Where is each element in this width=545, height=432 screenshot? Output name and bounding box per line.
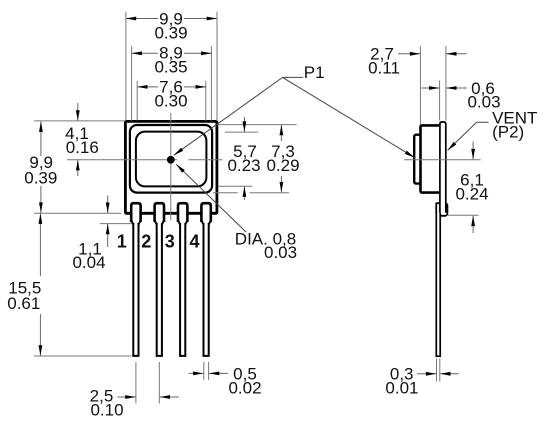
svg-text:0.11: 0.11 xyxy=(368,59,400,78)
front view: lead 3 (stub, taper, pin) xyxy=(178,203,187,356)
pin numbers xyxy=(117,231,200,251)
svg-text:0.04: 0.04 xyxy=(72,253,105,272)
svg-text:0.16: 0.16 xyxy=(66,138,99,157)
side view: lead xyxy=(436,203,440,356)
svg-text:0.24: 0.24 xyxy=(455,185,488,204)
front view: port outer ring xyxy=(130,125,212,193)
label VENT (P2) with leader xyxy=(448,109,538,151)
dimension 9,9 / 0.39 (top width) xyxy=(126,10,217,43)
svg-text:P1: P1 xyxy=(304,63,325,82)
front view: package body outline xyxy=(125,121,216,213)
svg-text:0.30: 0.30 xyxy=(154,92,187,111)
front view: lead 2 (stub, taper, pin) xyxy=(155,203,164,356)
front view: port inner ring xyxy=(136,132,207,187)
label DIA. 0,8 / 0.03 with leader xyxy=(176,164,297,262)
dimension 2,7 / 0.11 xyxy=(368,45,467,78)
dimension 5,7 / 0.23 xyxy=(227,117,260,200)
svg-text:(P2): (P2) xyxy=(492,123,524,142)
svg-text:0.61: 0.61 xyxy=(7,294,40,313)
svg-text:2: 2 xyxy=(141,231,151,251)
extension ticks right of front view (5,7 and 7,3) xyxy=(213,125,297,193)
dimension 2,5 / 0.10 (pin pitch) xyxy=(90,362,179,420)
dimension 0,5 / 0.02 (lead width) xyxy=(189,362,262,398)
dimension 6,1 / 0.24 xyxy=(455,142,488,234)
svg-text:0.35: 0.35 xyxy=(154,58,187,77)
centerline horizontal (side view) xyxy=(404,159,481,161)
dimension 1,1 / 0.04 xyxy=(72,196,107,273)
svg-text:3: 3 xyxy=(165,231,175,251)
svg-text:0.39: 0.39 xyxy=(154,24,187,43)
dimension 4,1 / 0.16 xyxy=(65,103,99,176)
port hole dot P1 xyxy=(167,156,175,164)
svg-text:1: 1 xyxy=(117,231,127,251)
side view: body xyxy=(421,125,443,192)
extension lines, left of front view xyxy=(34,121,132,356)
dimension 0,6 / 0.03 xyxy=(421,79,500,112)
side view extension lines (top) xyxy=(420,46,478,215)
svg-text:0.02: 0.02 xyxy=(228,379,261,398)
side view: vent strip xyxy=(440,122,446,213)
front view: lead 1 (stub, taper, pin) xyxy=(131,203,140,356)
side view: port cap xyxy=(414,135,423,184)
front view: lead 4 (stub, taper, pin) xyxy=(201,203,210,356)
dimension 7,3 / 0.29 xyxy=(266,125,299,192)
svg-text:0.10: 0.10 xyxy=(90,401,123,420)
svg-text:4: 4 xyxy=(189,231,199,251)
svg-text:0.03: 0.03 xyxy=(264,243,297,262)
dimension 8,9 / 0.35 xyxy=(132,44,212,77)
dimension 7,6 / 0.30 xyxy=(137,78,206,111)
svg-text:0.39: 0.39 xyxy=(24,168,57,187)
svg-text:0.01: 0.01 xyxy=(385,379,418,398)
label P1 with leaders xyxy=(174,63,415,157)
svg-text:0.23: 0.23 xyxy=(227,156,260,175)
dimension 9,9 / 0.39 (left height) xyxy=(24,122,57,213)
dimension 0,3 / 0.01 (lead thickness, side) xyxy=(385,359,458,398)
svg-text:0.29: 0.29 xyxy=(266,156,299,175)
side view: lead hook xyxy=(436,203,447,216)
extension lines, top of front view xyxy=(126,12,217,121)
centerline horizontal (front view) xyxy=(67,159,177,161)
centerline vertical (front view) xyxy=(170,113,172,220)
dimension 15,5 / 0.61 xyxy=(7,214,41,356)
